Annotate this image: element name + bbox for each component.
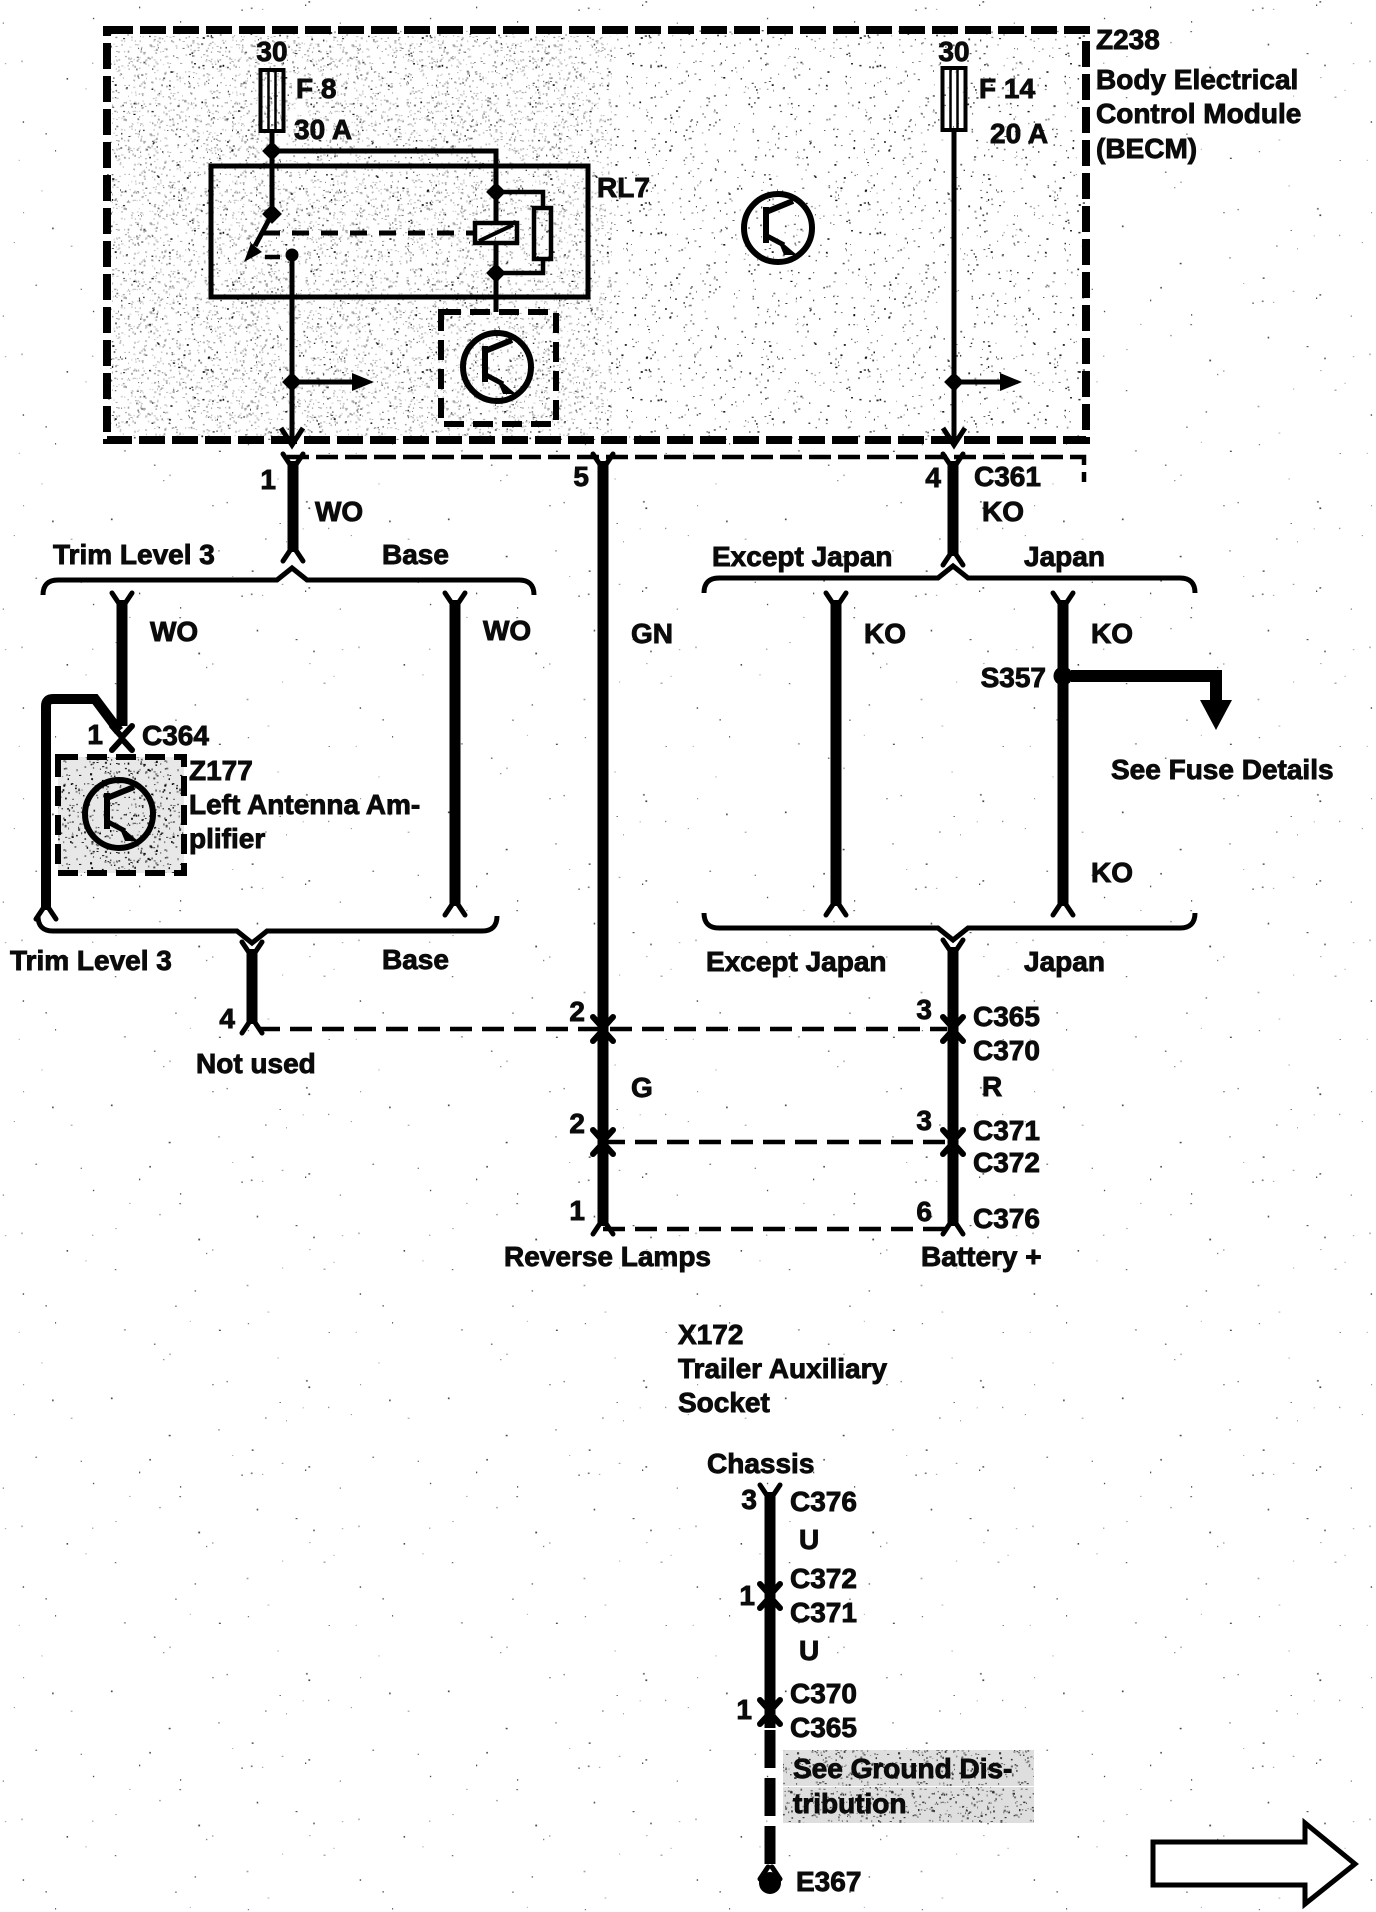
svg-text:U: U xyxy=(799,1635,819,1666)
svg-text:G: G xyxy=(631,1072,653,1103)
svg-text:30 A: 30 A xyxy=(294,114,352,145)
wire RL7 output down to pin 1 xyxy=(290,255,295,444)
svg-text:C376: C376 xyxy=(790,1486,857,1517)
svg-text:Japan: Japan xyxy=(1024,541,1105,572)
wire return loop Z177 to bracket xyxy=(36,699,119,919)
svg-text:C371: C371 xyxy=(790,1597,857,1628)
svg-text:C370: C370 xyxy=(973,1035,1040,1066)
svg-text:Except Japan: Except Japan xyxy=(706,946,887,977)
arrow page continuation xyxy=(1153,1823,1355,1904)
svg-text:30: 30 xyxy=(256,36,287,67)
node S357 splice xyxy=(1054,667,1073,686)
svg-text:Battery +: Battery + xyxy=(921,1241,1042,1272)
pin 1 C361 xyxy=(283,454,303,466)
svg-text:U: U xyxy=(799,1524,819,1555)
svg-text:1: 1 xyxy=(739,1580,755,1611)
svg-text:See Ground Dis-: See Ground Dis- xyxy=(793,1753,1012,1784)
connector bowtie C372/C371 xyxy=(760,1584,780,1608)
pin 3 C376 chassis xyxy=(760,1485,780,1497)
svg-text:C372: C372 xyxy=(790,1563,857,1594)
arrow internal branch right xyxy=(954,380,1004,385)
label Z177 Left Antenna Amplifier xyxy=(189,755,420,854)
relay RL7 coil box xyxy=(475,223,517,243)
relay RL7 box xyxy=(211,166,588,297)
svg-text:C370: C370 xyxy=(790,1678,857,1709)
timer unit dashed box xyxy=(441,312,556,424)
svg-text:2: 2 xyxy=(569,1108,585,1139)
resistor parallel with RL7 coil xyxy=(496,192,551,273)
labels C372 C371 xyxy=(790,1563,857,1628)
connector bowtie GN at C365 xyxy=(593,1017,613,1041)
svg-text:KO: KO xyxy=(1091,857,1133,888)
svg-text:Z177: Z177 xyxy=(189,755,253,786)
svg-text:RL7: RL7 xyxy=(597,172,650,203)
relay RL7 actuation dashed link xyxy=(263,231,474,236)
highlight see ground distribution xyxy=(783,1750,1034,1823)
label See Ground Distribution xyxy=(793,1753,1012,1819)
connector line C371/C372 dashed xyxy=(603,1140,947,1145)
svg-text:Body Electrical: Body Electrical xyxy=(1096,64,1298,95)
connector line C365/C370 dashed xyxy=(258,1027,947,1032)
ground E367 xyxy=(759,1867,781,1894)
wire WO trim-level branch xyxy=(112,593,132,726)
wire WO base branch xyxy=(445,593,465,915)
svg-text:KO: KO xyxy=(864,618,906,649)
wire horizontal feed to relay coil xyxy=(272,151,496,223)
pin 4 C361 xyxy=(943,454,963,466)
svg-text:20 A: 20 A xyxy=(990,118,1048,149)
connector bowtie R at C371 xyxy=(943,1130,963,1154)
svg-text:1: 1 xyxy=(736,1694,752,1725)
connector bowtie C370/C365 xyxy=(760,1700,780,1724)
svg-text:Japan: Japan xyxy=(1024,946,1105,977)
svg-text:Except Japan: Except Japan xyxy=(712,541,893,572)
svg-text:Reverse Lamps: Reverse Lamps xyxy=(504,1241,711,1272)
clock symbol Z177 xyxy=(85,780,153,848)
relay RL7 switch arm xyxy=(255,214,272,246)
connector C361 dashed line xyxy=(287,457,1084,482)
svg-text:1: 1 xyxy=(87,719,103,750)
svg-text:X172: X172 xyxy=(678,1319,743,1350)
node F14 branch xyxy=(944,372,964,392)
svg-text:3: 3 xyxy=(741,1484,757,1515)
svg-text:Trim Level 3: Trim Level 3 xyxy=(10,945,172,976)
svg-text:E367: E367 xyxy=(796,1866,861,1897)
svg-text:C361: C361 xyxy=(974,461,1041,492)
svg-text:tribution: tribution xyxy=(793,1788,907,1819)
svg-text:4: 4 xyxy=(219,1003,235,1034)
relay RL7 output contact node xyxy=(286,249,299,262)
label F14 value xyxy=(979,73,1048,149)
wire KO except-japan branch xyxy=(826,593,846,915)
amplifier Z177 dashed box xyxy=(58,757,184,873)
pin 5 C361 xyxy=(593,454,613,466)
svg-text:WO: WO xyxy=(150,616,198,647)
wire pin1 WO xyxy=(283,461,303,561)
svg-text:Socket: Socket xyxy=(678,1387,770,1418)
svg-text:C365: C365 xyxy=(790,1712,857,1743)
svg-text:Base: Base xyxy=(382,539,449,570)
wire F14 down to pin 4 xyxy=(952,130,957,444)
svg-text:See Fuse Details: See Fuse Details xyxy=(1111,754,1334,785)
wire japan trunk lower xyxy=(943,940,963,1226)
svg-text:C371: C371 xyxy=(973,1115,1040,1146)
svg-text:3: 3 xyxy=(916,1105,932,1136)
arrow wire exits module at pin 4 xyxy=(943,428,965,445)
labels C370 C365 xyxy=(790,1678,857,1743)
svg-text:Base: Base xyxy=(382,944,449,975)
svg-text:5: 5 xyxy=(573,461,589,492)
svg-text:Not used: Not used xyxy=(196,1048,316,1079)
svg-text:KO: KO xyxy=(982,496,1024,527)
bracket trim/base upper xyxy=(43,568,534,595)
svg-text:(BECM): (BECM) xyxy=(1096,133,1197,164)
label F8 value xyxy=(294,73,352,145)
label Z238 BECM xyxy=(1096,24,1301,164)
wire end R at C376 xyxy=(943,1222,963,1234)
clock symbol BECM internal xyxy=(744,194,812,262)
bracket japan lower xyxy=(704,913,1195,940)
module Z238 BECM dashed enclosure xyxy=(107,30,1086,440)
connector bowtie KO at C365 xyxy=(943,1017,963,1041)
svg-text:1: 1 xyxy=(260,464,276,495)
svg-text:4: 4 xyxy=(925,462,941,493)
svg-text:Z238: Z238 xyxy=(1096,24,1160,55)
svg-text:Chassis: Chassis xyxy=(707,1448,814,1479)
wire pin5 GN trunk xyxy=(598,461,609,1226)
wire KO japan branch xyxy=(1053,593,1073,915)
svg-text:KO: KO xyxy=(1091,618,1133,649)
svg-text:GN: GN xyxy=(631,618,673,649)
labels C371 C372 xyxy=(973,1115,1040,1178)
svg-text:2: 2 xyxy=(569,996,585,1027)
label X172 Trailer Auxiliary Socket xyxy=(678,1319,887,1418)
svg-text:Control Module: Control Module xyxy=(1096,98,1301,129)
connector C364 pin 1 bowtie xyxy=(112,726,132,750)
svg-text:WO: WO xyxy=(315,496,363,527)
svg-text:S357: S357 xyxy=(981,662,1046,693)
wire S357 branch to fuse details xyxy=(1071,676,1216,704)
svg-text:1: 1 xyxy=(569,1195,585,1226)
arrow wire exits module at pin 1 xyxy=(281,428,303,445)
svg-text:C365: C365 xyxy=(973,1001,1040,1032)
wire not-used pin 4 xyxy=(242,942,262,1033)
node junction below F8 xyxy=(262,141,282,161)
svg-text:Trailer Auxiliary: Trailer Auxiliary xyxy=(678,1353,887,1384)
labels C365 C370 xyxy=(973,1001,1040,1066)
bracket trim/base lower xyxy=(38,916,497,943)
connector bowtie G at C371 xyxy=(593,1130,613,1154)
clock symbol in timer box xyxy=(463,333,531,401)
connector line C376 dashed xyxy=(603,1227,947,1232)
svg-text:WO: WO xyxy=(483,615,531,646)
arrow internal branch left xyxy=(292,380,356,385)
node coil top tap xyxy=(486,182,506,202)
svg-text:plifier: plifier xyxy=(189,823,265,854)
relay RL7 switch pivot node xyxy=(262,204,282,224)
svg-text:6: 6 xyxy=(916,1196,932,1227)
svg-text:Trim Level 3: Trim Level 3 xyxy=(53,539,215,570)
wire coil to timer box xyxy=(494,243,499,312)
svg-text:R: R xyxy=(982,1071,1002,1102)
svg-text:F 8: F 8 xyxy=(296,73,336,104)
bracket japan upper xyxy=(704,566,1195,593)
wire chassis ground U xyxy=(765,1492,776,1728)
fuse F14 20A xyxy=(943,68,966,130)
svg-text:C372: C372 xyxy=(973,1147,1040,1178)
svg-text:C376: C376 xyxy=(973,1203,1040,1234)
wire dashed to ground E367 xyxy=(765,1730,776,1866)
svg-text:F 14: F 14 xyxy=(979,73,1035,104)
node coil bottom tap xyxy=(486,263,506,283)
node output branch xyxy=(282,372,302,392)
wire end GN at C376 xyxy=(593,1222,613,1234)
svg-text:30: 30 xyxy=(938,36,969,67)
svg-text:3: 3 xyxy=(916,994,932,1025)
wire F8 to switch pivot xyxy=(270,131,275,212)
fuse F8 30A xyxy=(261,70,284,131)
wire pin4 KO xyxy=(943,461,963,565)
svg-text:Left Antenna Am-: Left Antenna Am- xyxy=(189,789,420,820)
svg-text:C364: C364 xyxy=(142,720,209,751)
relay RL7 contact dash xyxy=(265,255,280,260)
